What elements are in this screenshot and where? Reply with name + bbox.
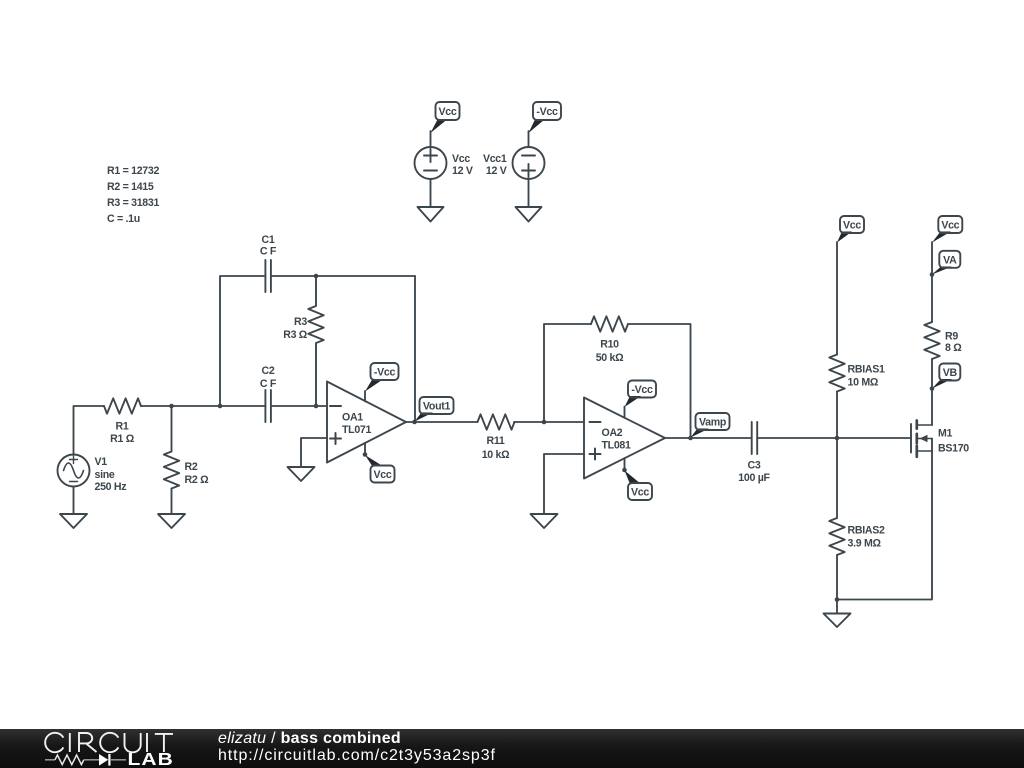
svg-text:C2: C2 [262, 365, 275, 377]
svg-text:R1 Ω: R1 Ω [110, 433, 135, 445]
svg-text:250 Hz: 250 Hz [95, 481, 127, 493]
svg-text:10 kΩ: 10 kΩ [482, 449, 510, 461]
svg-text:R2 Ω: R2 Ω [185, 474, 210, 486]
parameter note text [107, 165, 159, 225]
net flag -Vcc (OA1) [365, 363, 399, 392]
svg-text:C F: C F [260, 378, 277, 390]
svg-text:R2 = 1415: R2 = 1415 [107, 181, 154, 193]
wire RBIAS2 bottom to ground [836, 555, 838, 614]
wire feedback loop up [544, 324, 591, 422]
net flag Vcc (V+ source) [431, 102, 460, 133]
wire flag to V+ top [430, 131, 432, 147]
wire OA2 V- pin [624, 458, 626, 470]
svg-text:C F: C F [260, 246, 277, 258]
resistor R1 [104, 398, 141, 445]
footer url line [218, 748, 496, 764]
svg-text:OA2: OA2 [602, 427, 623, 439]
node VB [930, 386, 935, 391]
wire RBIAS2 top [836, 438, 838, 518]
wire R1 to C2 [141, 405, 265, 407]
node junction R3 bottom [314, 404, 319, 409]
net flag Vcc (R9) [932, 216, 962, 243]
svg-text:C = .1u: C = .1u [107, 213, 140, 225]
net flag -Vcc (V- source) [529, 102, 562, 133]
svg-text:Vout1: Vout1 [423, 401, 451, 413]
svg-text:LAB: LAB [128, 751, 174, 768]
wire V1 bottom to ground [73, 487, 75, 515]
node junction gate/bias [835, 436, 840, 441]
svg-text:BS170: BS170 [938, 443, 969, 455]
wire C3 to M1 gate [757, 437, 911, 439]
ground (under Vcc source) [418, 207, 444, 222]
svg-text:RBIAS1: RBIAS1 [848, 364, 885, 376]
resistor RBIAS1 [829, 355, 885, 392]
wire R9 to M1 drain [931, 359, 933, 425]
wire C1 to top-right corner [271, 275, 415, 277]
wire OA2 V+ pin [624, 407, 626, 418]
resistor R3 [283, 276, 323, 406]
svg-text:Vcc: Vcc [439, 106, 457, 118]
svg-text:R1: R1 [116, 421, 129, 433]
wire feedback right vertical to output [414, 276, 416, 422]
ground (under V1) [60, 514, 87, 528]
svg-text:-Vcc: -Vcc [374, 367, 396, 379]
svg-text:VB: VB [943, 367, 958, 379]
net flag -Vcc (OA2) [625, 381, 657, 408]
svg-text:12 V: 12 V [452, 165, 473, 177]
svg-text:10 MΩ: 10 MΩ [848, 376, 879, 388]
ground (under Vcc1 source) [516, 207, 542, 222]
svg-text:R10: R10 [600, 339, 619, 351]
svg-text:Vcc: Vcc [843, 220, 861, 232]
capacitor C2 [260, 365, 277, 422]
logo CIRCUIT [45, 733, 173, 752]
svg-text:R3 Ω: R3 Ω [283, 329, 308, 341]
capacitor C1 [260, 234, 277, 292]
svg-text:8 Ω: 8 Ω [945, 342, 962, 354]
node OA2 V- pin end [622, 468, 627, 473]
svg-text:Vcc: Vcc [941, 220, 959, 232]
net flag VB [932, 364, 960, 389]
wire R2 bottom to ground [171, 489, 173, 515]
net flag Vamp [691, 413, 730, 438]
wire M1 source down and left [837, 439, 932, 600]
svg-text:Vamp: Vamp [699, 417, 727, 429]
resistor R2 [164, 452, 209, 489]
node OA1 V- pin end [363, 452, 368, 457]
svg-text:-Vcc: -Vcc [536, 106, 558, 118]
svg-text:C1: C1 [262, 234, 275, 246]
transistor M1 BS170 [911, 421, 969, 457]
svg-text:RBIAS2: RBIAS2 [848, 525, 885, 537]
wire C2 to OA1 inverting input [271, 405, 327, 407]
voltage source V1 sine 250Hz [58, 455, 127, 494]
net flag Vcc (OA2) [625, 471, 653, 501]
svg-text:M1: M1 [938, 428, 953, 440]
net flag Vcc (RBIAS1) [837, 216, 864, 243]
svg-text:VA: VA [943, 254, 957, 266]
svg-text:OA1: OA1 [342, 412, 363, 424]
svg-text:Vcc: Vcc [452, 153, 470, 165]
wire OA1 noninverting input to ground [301, 438, 327, 467]
svg-text:12 V: 12 V [486, 165, 507, 177]
svg-text:Vcc: Vcc [631, 487, 649, 499]
svg-text:50 kΩ: 50 kΩ [596, 352, 624, 364]
node VA [930, 272, 935, 277]
wire Vcc flag to RBIAS1 [836, 242, 838, 355]
op-amp OA1 TL071 [327, 382, 406, 463]
wire flag to V- top [528, 131, 530, 147]
wire V+ bottom to ground [430, 179, 432, 207]
svg-text:R11: R11 [487, 435, 505, 447]
footer bar [0, 729, 1024, 768]
svg-text:R1 = 12732: R1 = 12732 [107, 165, 159, 177]
svg-text:Vcc1: Vcc1 [483, 153, 507, 165]
capacitor C3 [738, 422, 770, 484]
node junction OA2 output/feedback [688, 436, 693, 441]
logo resistor-diode wire [45, 754, 126, 766]
resistor RBIAS2 [829, 518, 885, 555]
svg-text:V1: V1 [95, 456, 108, 468]
net flag Vout1 [415, 397, 454, 422]
resistor R10 [591, 316, 628, 364]
wire V- bottom to ground [528, 179, 530, 207]
ground (OA1 + input) [288, 467, 315, 481]
wire feedback loop down to output [628, 324, 691, 438]
net flag Vcc (OA1) [365, 455, 395, 483]
node junction loop left [218, 404, 223, 409]
svg-text:C3: C3 [748, 460, 761, 472]
wire RBIAS1 bottom [836, 392, 838, 439]
node junction source/bias [835, 597, 840, 602]
svg-text:100 µF: 100 µF [738, 472, 770, 484]
svg-text:Vcc: Vcc [374, 469, 392, 481]
node junction output/feedback [412, 420, 417, 425]
ground (under R2) [158, 514, 185, 528]
logo diode [99, 754, 108, 766]
wire OA2 output to C3 [665, 437, 752, 439]
voltage source Vcc 12V [415, 147, 473, 179]
ground (bottom) [824, 614, 851, 628]
svg-text:3.9 MΩ: 3.9 MΩ [848, 538, 882, 550]
wire OA1 output to R11 [406, 421, 477, 423]
svg-text:-Vcc: -Vcc [631, 384, 653, 396]
resistor R9 [924, 322, 962, 359]
svg-text:R3 = 31831: R3 = 31831 [107, 197, 159, 209]
op-amp OA2 TL081 [584, 398, 665, 479]
node junction R1/R2 [169, 404, 174, 409]
svg-text:R9: R9 [945, 331, 958, 343]
wire OA1 V+ pin [364, 391, 366, 401]
voltage source Vcc1 12V [483, 147, 545, 179]
net flag VA [932, 251, 960, 275]
resistor R11 [478, 414, 515, 461]
svg-text:TL071: TL071 [342, 424, 372, 436]
wire left feedback vertical [220, 276, 264, 406]
wire OA2 noninverting input to ground [544, 454, 584, 514]
footer attribution line [218, 731, 401, 747]
ground (OA2 + input) [531, 514, 558, 528]
wire R11 to OA2 inverting input [514, 421, 584, 423]
svg-text:TL081: TL081 [602, 440, 632, 452]
node junction R11/feedback [542, 420, 547, 425]
svg-text:R3: R3 [294, 316, 307, 328]
wire OA1 V- pin [364, 443, 366, 455]
node junction R3 top [314, 274, 319, 279]
wire V1 top up to main line [74, 406, 105, 455]
svg-text:sine: sine [95, 469, 115, 481]
wire R2 top [171, 406, 173, 452]
wire Vcc flag to R9 [931, 242, 933, 322]
svg-text:R2: R2 [185, 461, 198, 473]
